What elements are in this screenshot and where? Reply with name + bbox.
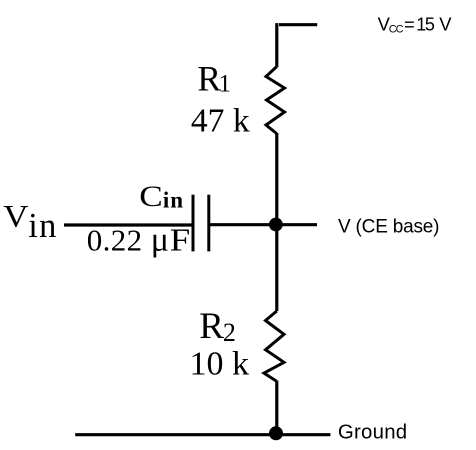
svg-text:CC: CC <box>389 24 404 36</box>
svg-text:47 k: 47 k <box>191 102 250 139</box>
svg-text:V: V <box>3 198 28 234</box>
svg-text:F: F <box>170 223 191 258</box>
svg-text:2: 2 <box>223 318 236 347</box>
svg-text:R: R <box>199 306 224 347</box>
svg-text:1: 1 <box>219 71 232 98</box>
svg-text:10 k: 10 k <box>190 346 250 383</box>
svg-text:V: V <box>439 13 452 34</box>
svg-text:μ: μ <box>151 222 169 259</box>
svg-text:Ground: Ground <box>338 422 408 444</box>
svg-text:15: 15 <box>416 14 435 34</box>
svg-text:V (CE base): V (CE base) <box>338 217 439 238</box>
svg-text:in: in <box>28 207 58 245</box>
svg-text:=: = <box>404 13 415 34</box>
svg-text:0.22: 0.22 <box>87 223 143 258</box>
svg-text:C: C <box>139 181 163 213</box>
svg-text:in: in <box>163 188 184 213</box>
